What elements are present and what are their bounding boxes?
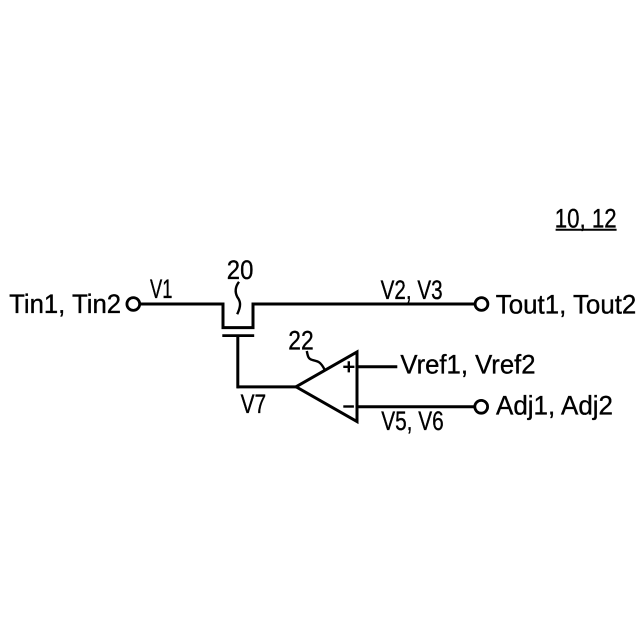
wire V1: Tin terminal to transistor: [141, 303, 225, 306]
op-amp 22 (triangle pointing left): [296, 352, 357, 422]
wire: non-inverting input to Vref label: [357, 365, 397, 368]
terminal Tin1,Tin2: [127, 298, 140, 311]
wire V5,V6: inverting input to Adj terminal: [357, 405, 475, 408]
terminal Adj1,Adj2: [475, 400, 488, 413]
wire V7: gate lead to op-amp output: [237, 385, 298, 388]
leader squiggle for 22: [307, 351, 325, 370]
svg-text:Adj1, Adj2: Adj1, Adj2: [496, 391, 613, 421]
transistor 20: channel (source-drain step): [223, 303, 253, 328]
svg-text:22: 22: [288, 325, 313, 355]
svg-text:V7: V7: [241, 389, 267, 419]
svg-text:Tout1, Tout2: Tout1, Tout2: [496, 289, 637, 319]
svg-text:Tin1, Tin2: Tin1, Tin2: [9, 289, 121, 319]
underline under 10, 12: [556, 229, 617, 231]
op-amp plus input mark: [343, 361, 354, 372]
terminal Tout1,Tout2: [475, 298, 488, 311]
svg-text:V1: V1: [150, 274, 172, 304]
wire: gate lead down from transistor: [236, 337, 239, 388]
wire V2,V3: transistor to Tout terminal: [252, 303, 476, 306]
svg-text:V5, V6: V5, V6: [381, 406, 444, 436]
svg-text:Vref1, Vref2: Vref1, Vref2: [400, 350, 535, 380]
leader squiggle for 20: [236, 282, 240, 315]
op-amp minus input mark: [343, 405, 354, 407]
transistor 20: gate bar: [222, 334, 254, 337]
svg-text:V2, V3: V2, V3: [381, 275, 443, 305]
svg-text:20: 20: [227, 255, 254, 285]
